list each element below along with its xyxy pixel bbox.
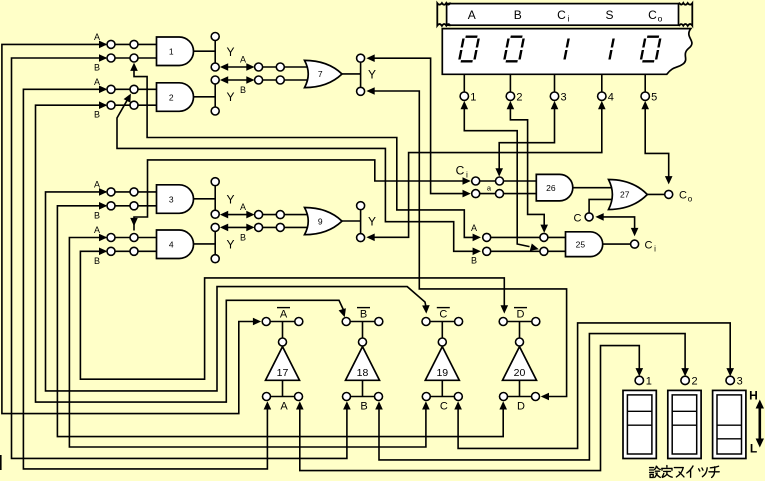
svg-text:C: C xyxy=(679,190,687,202)
svg-text:1: 1 xyxy=(470,92,476,104)
svg-text:S: S xyxy=(605,8,613,22)
svg-text:4: 4 xyxy=(169,239,174,249)
svg-text:2: 2 xyxy=(169,92,174,102)
svg-text:B: B xyxy=(471,256,477,266)
svg-text:B: B xyxy=(240,85,246,95)
svg-text:L: L xyxy=(750,442,757,456)
svg-text:4: 4 xyxy=(608,92,614,104)
svg-text:A: A xyxy=(468,8,476,22)
svg-text:C: C xyxy=(648,8,657,22)
svg-text:A: A xyxy=(240,55,246,65)
svg-text:Y: Y xyxy=(227,90,235,104)
svg-text:17: 17 xyxy=(277,367,289,379)
svg-text:A: A xyxy=(94,77,100,87)
svg-text:B: B xyxy=(360,401,367,413)
svg-text:C: C xyxy=(456,164,465,178)
svg-text:19: 19 xyxy=(436,367,448,379)
svg-text:2: 2 xyxy=(516,92,522,104)
svg-text:C: C xyxy=(439,309,447,321)
svg-text:2: 2 xyxy=(692,376,698,388)
svg-text:1: 1 xyxy=(646,376,652,388)
svg-text:Y: Y xyxy=(227,238,235,252)
svg-text:D: D xyxy=(517,309,525,321)
svg-text:C: C xyxy=(557,8,566,22)
svg-text:A: A xyxy=(471,223,477,233)
svg-text:1: 1 xyxy=(169,46,174,56)
svg-text:B: B xyxy=(240,233,246,243)
svg-text:Y: Y xyxy=(227,45,235,59)
svg-text:B: B xyxy=(94,110,100,120)
svg-text:i: i xyxy=(466,170,468,180)
svg-text:A: A xyxy=(240,202,246,212)
svg-text:C: C xyxy=(440,401,448,413)
svg-text:o: o xyxy=(688,195,693,204)
svg-text:B: B xyxy=(94,63,100,73)
svg-text:A: A xyxy=(94,179,100,189)
svg-text:3: 3 xyxy=(560,92,566,104)
svg-text:Y: Y xyxy=(227,193,235,207)
svg-text:B: B xyxy=(514,8,522,22)
svg-text:5: 5 xyxy=(651,92,657,104)
svg-text:C: C xyxy=(645,240,653,252)
svg-text:25: 25 xyxy=(576,239,586,249)
svg-text:C: C xyxy=(574,213,582,225)
svg-text:18: 18 xyxy=(357,367,369,379)
svg-text:7: 7 xyxy=(318,69,323,79)
svg-text:20: 20 xyxy=(514,367,526,379)
svg-text:A: A xyxy=(94,32,100,42)
svg-text:i: i xyxy=(654,245,656,254)
svg-text:i: i xyxy=(568,14,570,24)
svg-text:Y: Y xyxy=(368,215,376,229)
svg-text:27: 27 xyxy=(620,190,630,200)
svg-text:D: D xyxy=(517,401,525,413)
svg-text:A: A xyxy=(280,401,288,413)
svg-text:H: H xyxy=(749,389,758,403)
svg-text:9: 9 xyxy=(318,216,323,226)
svg-text:A: A xyxy=(280,309,288,321)
svg-text:o: o xyxy=(658,14,663,24)
svg-text:B: B xyxy=(94,256,100,266)
svg-text:3: 3 xyxy=(169,194,174,204)
svg-text:Y: Y xyxy=(368,68,376,82)
svg-text:26: 26 xyxy=(546,183,556,193)
svg-text:3: 3 xyxy=(737,376,743,388)
svg-text:B: B xyxy=(360,309,367,321)
svg-text:B: B xyxy=(94,210,100,220)
svg-text:A: A xyxy=(94,225,100,235)
